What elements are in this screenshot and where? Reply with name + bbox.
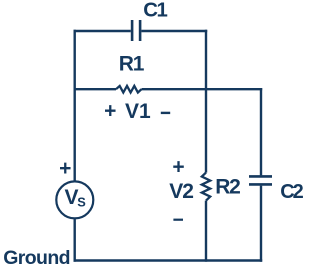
- voltage source VS: [56, 181, 93, 218]
- capacitor C1: [132, 20, 140, 41]
- wire middle rail upper: [205, 30, 207, 173]
- wire left rail lower: [73, 219, 75, 262]
- wire bottom branch: [74, 259, 263, 261]
- wire top branch right: [141, 30, 207, 32]
- svg-text:R1: R1: [119, 53, 145, 76]
- wire right rail lower: [260, 186, 262, 262]
- wire R1 branch right: [142, 88, 263, 90]
- resistor R1: [116, 86, 142, 93]
- wire top branch left: [74, 30, 131, 32]
- label minus V2: [173, 219, 183, 221]
- wire left rail upper: [73, 30, 75, 181]
- svg-text:C2: C2: [280, 181, 303, 203]
- wire middle rail lower: [205, 201, 207, 262]
- svg-text:V2: V2: [169, 180, 193, 203]
- capacitor C2: [249, 176, 272, 184]
- svg-text:+: +: [59, 157, 71, 180]
- label minus V1: [161, 112, 170, 114]
- svg-text:Ground: Ground: [3, 247, 70, 269]
- wire R1 branch left: [74, 88, 117, 90]
- svg-text:+: +: [104, 100, 116, 123]
- resistor R2: [202, 173, 210, 201]
- wire right rail upper: [260, 88, 262, 175]
- svg-text:S: S: [77, 194, 86, 209]
- svg-text:V1: V1: [125, 100, 151, 123]
- svg-text:R2: R2: [215, 176, 240, 199]
- svg-text:C1: C1: [143, 0, 167, 22]
- svg-text:+: +: [172, 156, 184, 179]
